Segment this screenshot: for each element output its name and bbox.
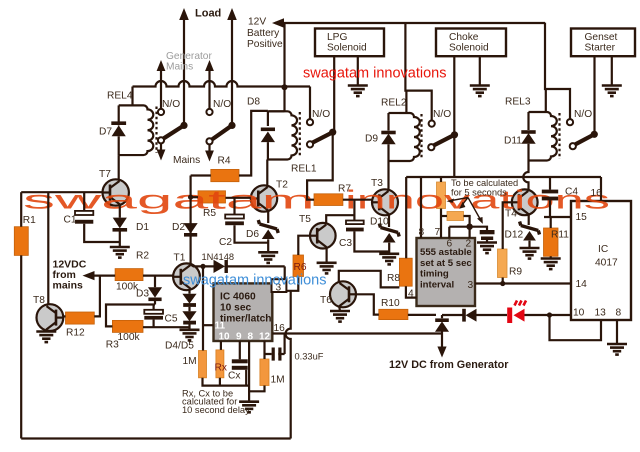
wire 12VDC from mains arrow (90, 275, 115, 277)
ground under D4/D5 (180, 330, 200, 341)
wire generator arrow line 2 (208, 68, 210, 109)
wire Rt top lead (440, 177, 442, 182)
resistor R12 (66, 312, 95, 324)
transistor T2 (251, 185, 277, 211)
wire pin2 node to timing cap (470, 227, 487, 230)
diode 1N4148 (214, 260, 226, 273)
svg-text:D6: D6 (246, 229, 259, 240)
wire R6 bottom to pin3 node (286, 277, 298, 291)
relay coil REL2 dotted line (420, 114, 422, 160)
wire T7 base (21, 191, 102, 193)
ground under timing cap (477, 243, 497, 254)
wire Choke right lead to ground (479, 56, 481, 85)
arrow load 1 head (179, 8, 189, 20)
wire T7 emitter to D1 (119, 205, 121, 218)
relay coil REL4 (119, 105, 154, 155)
wire R3 right to D4/D5 node (143, 326, 190, 328)
wire T4 emitter to D12 (528, 214, 530, 225)
diode blocking (points left) (462, 309, 466, 322)
svg-text:IC: IC (598, 244, 608, 255)
diode D8 (261, 132, 275, 143)
wire REL3 coil top drop (545, 89, 547, 112)
capacitor C3 (346, 221, 364, 225)
svg-text:R4: R4 (218, 156, 231, 167)
svg-text:10: 10 (219, 332, 231, 343)
svg-text:R3: R3 (106, 340, 119, 351)
ground under 4017 pin8 (607, 344, 627, 355)
wire REL2 coil top to D9 (389, 112, 400, 114)
svg-text:N/O: N/O (433, 109, 451, 120)
wire C5 top lead (153, 305, 155, 310)
wire generator diode column (441, 315, 443, 350)
wire T5 emitter (326, 247, 328, 262)
wire bus left end down to REL4 coil (131, 87, 133, 106)
svg-text:12: 12 (259, 332, 271, 343)
wire pin 11 stub (203, 324, 214, 326)
svg-text:D3: D3 (136, 289, 149, 300)
svg-text:Cx: Cx (228, 371, 240, 382)
wire generator arrow line 1 (160, 68, 162, 109)
svg-text:15: 15 (576, 212, 588, 223)
wire REL1 coil top feed (268, 110, 285, 112)
svg-text:R8: R8 (387, 273, 400, 284)
svg-text:C2: C2 (219, 237, 232, 248)
relay coil REL3 (529, 112, 557, 160)
wire 1M right bottom to ground column (249, 386, 264, 392)
resistor R5 (198, 191, 226, 203)
svg-text:1M: 1M (271, 375, 285, 386)
svg-text:R10: R10 (381, 298, 400, 309)
svg-text:1M: 1M (183, 356, 197, 367)
svg-text:C3: C3 (339, 238, 352, 249)
arrow load 2 head (227, 8, 237, 20)
IC 4060 pin 3 tab (272, 279, 287, 292)
IC 4060 body (214, 283, 273, 341)
resistor R7 (314, 194, 343, 206)
arrow mains down 1 (160, 144, 162, 154)
svg-text:C1: C1 (64, 215, 77, 226)
wire C3 bottom lead to D10 ground node (354, 231, 389, 251)
wire R4 left lead (191, 174, 211, 176)
wire 4017 pin8 to ground (616, 320, 618, 344)
wire C2 top lead (233, 198, 235, 215)
wire T8 emitter (45, 330, 47, 332)
svg-text:4017: 4017 (595, 258, 618, 269)
wire rail down to R8 top (405, 177, 407, 258)
diode generator (435, 321, 449, 331)
resistor R1 (14, 227, 28, 256)
svg-text:R11: R11 (551, 230, 569, 241)
svg-text:R12: R12 (66, 328, 85, 339)
svg-text:LPG: LPG (327, 32, 347, 43)
svg-text:timing: timing (420, 269, 449, 280)
svg-text:N/O: N/O (162, 99, 180, 110)
svg-text:REL4: REL4 (107, 91, 133, 102)
svg-text:N/O: N/O (312, 109, 330, 120)
svg-text:R9: R9 (509, 267, 522, 278)
ground under D6 (258, 252, 278, 263)
wire 4060 pin12 column with 0.33uF tap (263, 341, 265, 359)
ground under 4060 pin8 (239, 402, 259, 413)
svg-text:T2: T2 (276, 180, 288, 191)
resistor R9 (498, 249, 508, 278)
diode D4 (182, 294, 196, 304)
ground under LPG solenoid (348, 86, 368, 97)
svg-text:Generator: Generator (166, 51, 212, 62)
node battery feed junction (282, 84, 288, 90)
transistor T5 (310, 223, 336, 249)
svg-text:11: 11 (215, 321, 226, 332)
ground under D12 (520, 248, 540, 259)
wire C1 top lead (83, 192, 85, 211)
svg-text:Positive: Positive (247, 39, 283, 50)
wire T5 collector up and right to C3 lead (326, 215, 354, 223)
wire T5 base to R6 (298, 236, 310, 255)
wire battery bus y=22.6 (275, 22, 545, 24)
diode D11 (527, 112, 529, 130)
wire 1N4148 cathode down to 4060 pin3 tab (284, 266, 286, 279)
box Genset Starter (571, 29, 635, 57)
svg-text:T1: T1 (174, 253, 186, 264)
wire D11 bottom along coil left edge down with hop to T4 (523, 144, 528, 191)
svg-text:for 5 seconds: for 5 seconds (451, 188, 507, 198)
transistor T3 (372, 189, 398, 215)
resistor R10 (379, 309, 408, 319)
transistor T8 mirrored (37, 304, 64, 331)
node pin13 junction (547, 312, 552, 317)
svg-text:7: 7 (435, 227, 441, 238)
IC 555 body (417, 238, 476, 306)
diode D2 (184, 223, 198, 233)
svg-text:10 sec: 10 sec (220, 303, 251, 314)
svg-text:10: 10 (573, 308, 585, 319)
wire R2 right to T1 base (143, 275, 173, 277)
wire R4 right lead up to D8 node (239, 111, 268, 176)
node R9 pin3 junction (500, 281, 505, 286)
switch REL3 contacts (567, 119, 573, 125)
node pin11 column top junction (200, 264, 205, 269)
node pin2 junction (466, 224, 472, 230)
svg-text:D9: D9 (365, 134, 378, 145)
wire R10 right to generator diode node (408, 314, 436, 316)
svg-text:D4/D5: D4/D5 (165, 341, 194, 352)
wire 4060 pin10 to Rx (220, 341, 222, 350)
box LPG Solenoid (315, 29, 384, 57)
svg-text:T5: T5 (299, 214, 311, 225)
wire rail y=177 (406, 176, 601, 178)
svg-text:8: 8 (419, 227, 425, 238)
wire load arrow line 2 (231, 17, 233, 125)
wire 555 pin3 to 4017 pin14 (475, 282, 571, 284)
svg-text:Battery: Battery (247, 28, 280, 39)
ground under D10 (379, 254, 399, 265)
wire Rt bottom to pin7 (440, 209, 442, 239)
wire C4 top lead from rail (549, 177, 551, 190)
wire T6 base to R10 (356, 294, 379, 314)
resistor 1M right (260, 359, 269, 386)
svg-text:R2: R2 (136, 251, 149, 262)
wire C1 bottom lead (84, 224, 120, 242)
svg-text:T6: T6 (320, 295, 332, 306)
wire REL3 feed from battery bus (545, 23, 570, 120)
diode D7 (118, 105, 120, 125)
diode D9 (387, 113, 389, 131)
arrows to be calculated (450, 198, 482, 222)
wire pin6 tie (449, 227, 469, 238)
wire T2 emitter to D6 (267, 211, 269, 224)
capacitor timing 555 (480, 230, 495, 234)
wire rail corner down to 4017 pin16 (600, 177, 602, 201)
relay coil REL4 dotted line (155, 107, 157, 154)
zener D6 (262, 230, 275, 240)
ground under T6 (330, 311, 350, 322)
wire T8 collector column (47, 192, 49, 304)
wire REL1 coil bottom D8 node (268, 142, 269, 159)
svg-text:Rx: Rx (215, 363, 227, 374)
capacitor Cx (232, 359, 248, 363)
wire rail up to pin3 node with hop (286, 292, 291, 439)
wire R8 bottom pin4 node (406, 286, 417, 297)
IC 4017 body (571, 201, 631, 320)
diode D1 (113, 218, 127, 229)
wire C2 bottom lead (235, 225, 269, 243)
svg-text:C4: C4 (565, 187, 578, 198)
transistor T6 mirrored (330, 281, 356, 307)
resistor R4 (211, 169, 239, 181)
arrow generator 1 head (157, 60, 166, 71)
wire R1 top lead (20, 192, 22, 227)
wire REL4 coil bottom to T7 collector (118, 155, 120, 180)
wire C5 bottom lead (153, 320, 155, 328)
wire R9 bottom to pin3 wire (502, 278, 504, 284)
wire REL2 coil top drop (405, 91, 407, 113)
svg-text:Mains: Mains (173, 155, 200, 166)
wire Rt2 left lead (441, 215, 447, 217)
resistor R11 (544, 228, 559, 256)
wire 0.33uF right lead up to pin16 wire (284, 334, 286, 355)
resistor R8 (399, 258, 412, 286)
svg-text:N/O: N/O (574, 109, 592, 120)
arrow generator 2 head (205, 60, 214, 71)
wire Rt2 right lead to pin2 node (464, 216, 470, 238)
switch SW2 contacts (206, 109, 212, 115)
wire Genset left lead to REL3 common (593, 56, 595, 134)
LED red (507, 308, 512, 324)
svg-text:swagatam innovations: swagatam innovations (303, 66, 446, 82)
svg-text:Genset: Genset (585, 32, 618, 43)
wire 4060 pin16 to generator node with hop (272, 332, 442, 334)
svg-text:3: 3 (468, 280, 474, 291)
wire REL1 N/O top terminal from bus (309, 87, 311, 119)
wire C4 bottom to R11 top and pin15 (544, 200, 571, 228)
wire bottom rail (21, 437, 291, 439)
wire D2 R4 R5 column (190, 176, 192, 265)
svg-text:R5: R5 (203, 208, 216, 219)
wire R11 bottom to ground (550, 256, 552, 258)
svg-text:R7: R7 (338, 184, 351, 195)
relay coil REL2 (400, 113, 420, 161)
resistor Rt2 timing horizontal (447, 212, 464, 221)
wire D3 bottom node left and down to R3 (106, 305, 155, 327)
wire 4017 pin13 loop (550, 315, 602, 340)
svg-text:set at 5 sec: set at 5 sec (420, 258, 472, 269)
transistor T4 (512, 189, 538, 215)
svg-text:T3: T3 (371, 178, 383, 189)
capacitor C2 (225, 215, 244, 219)
arrow 12V battery positive head (points left) (272, 18, 284, 28)
svg-text:R1: R1 (23, 215, 36, 226)
svg-text:N/O: N/O (213, 99, 231, 110)
svg-text:0.33uF: 0.33uF (295, 352, 324, 362)
svg-text:REL2: REL2 (381, 98, 407, 109)
wire LPG left lead to REL1 common (333, 56, 335, 132)
svg-text:swagatam innovations: swagatam innovations (183, 273, 326, 289)
resistor 1M left (199, 351, 207, 378)
wire R1 bottom to rail (20, 255, 22, 438)
ground under T8 (36, 332, 56, 343)
resistor R3 100k (112, 320, 143, 332)
wire T1 collector node to 1N4148 (191, 265, 214, 267)
resistor Rt timing (to be calculated) (437, 182, 446, 209)
wire Choke left lead through REL2 common to rail (453, 56, 455, 177)
svg-text:100k: 100k (118, 332, 141, 343)
capacitor C1 (75, 211, 93, 215)
svg-text:1N4148: 1N4148 (202, 252, 235, 262)
wire Genset right lead to ground (611, 56, 613, 85)
resistor R2 100k (115, 269, 143, 281)
wire 555 pin8 from rail (420, 177, 422, 238)
zener D10 (383, 233, 396, 243)
svg-text:Choke: Choke (449, 32, 479, 43)
svg-text:IC 4060: IC 4060 (220, 292, 256, 303)
wire R7 right to T3 base with C3 tap (343, 199, 372, 201)
switch SW1 contacts (158, 109, 164, 115)
wire main bus y=86.5 with hops (133, 81, 311, 87)
svg-text:4: 4 (408, 289, 414, 300)
wire REL2 feed from battery bus (405, 23, 431, 121)
wire 4060 pin8 ground column (248, 341, 250, 402)
ground under Genset starter (602, 86, 622, 97)
relay coil REL1 (269, 111, 297, 159)
wire R12 feed column (94, 276, 100, 317)
arrow 12V DC from generator (437, 347, 446, 358)
svg-text:REL3: REL3 (505, 97, 531, 108)
transistor T1 (173, 263, 200, 290)
resistor R6 (293, 255, 304, 277)
svg-text:interval: interval (420, 279, 454, 290)
wire T3 emitter to D10 (388, 214, 390, 227)
svg-text:C5: C5 (165, 314, 178, 325)
wire T6 emitter (338, 306, 341, 311)
svg-text:To be calculated: To be calculated (451, 178, 518, 188)
svg-text:9: 9 (236, 332, 242, 343)
svg-text:Starter: Starter (585, 43, 616, 54)
svg-text:T7: T7 (99, 169, 111, 180)
svg-text:12V: 12V (248, 17, 266, 28)
zener D12 (523, 231, 536, 241)
svg-text:D2: D2 (172, 222, 185, 233)
svg-text:Load: Load (195, 8, 221, 20)
svg-text:D8: D8 (247, 97, 260, 108)
wire R5 right to T2 base (226, 197, 251, 199)
wire pin11 column (202, 266, 204, 350)
box Choke Solenoid (436, 29, 506, 57)
wire T6 collector to R8 bottom node (339, 271, 400, 288)
wire battery feed drop x=284.5 (283, 23, 285, 112)
svg-text:8: 8 (616, 308, 622, 319)
ground under D1 (110, 247, 130, 258)
wire LPG right lead to ground (357, 56, 359, 85)
svg-text:14: 14 (576, 279, 588, 290)
svg-text:mains: mains (53, 280, 84, 292)
svg-text:R6: R6 (294, 262, 307, 273)
switch REL2 contacts (429, 121, 435, 127)
diode D3 (148, 287, 162, 297)
wire T8 base lead (63, 315, 65, 317)
transistor T7 (103, 179, 129, 205)
capacitor 0.33uF (265, 353, 285, 355)
capacitor C4 (542, 190, 558, 194)
wire T2 collector to REL1 coil bottom (266, 160, 268, 188)
switch REL1 contacts (307, 119, 313, 125)
svg-text:Solenoid: Solenoid (449, 43, 489, 54)
svg-text:D10: D10 (370, 217, 389, 228)
ground under R11 (541, 259, 561, 270)
svg-text:D11: D11 (504, 136, 522, 147)
svg-text:REL1: REL1 (291, 164, 317, 175)
wire T1 emitter to D4 (188, 290, 190, 294)
wire 4060 pin9 to Cx (239, 341, 241, 359)
svg-text:T4: T4 (505, 209, 517, 220)
node R5 D2 junction (188, 195, 193, 200)
svg-text:Mains: Mains (166, 62, 193, 73)
svg-text:16: 16 (591, 188, 603, 199)
wire C3 top lead (353, 200, 355, 221)
svg-text:2: 2 (466, 239, 472, 250)
wire D3 top lead (154, 276, 156, 288)
svg-text:16: 16 (274, 323, 286, 334)
wire REL1 common down to R7 (307, 132, 333, 200)
ground under Choke solenoid (470, 86, 490, 97)
svg-text:13: 13 (595, 308, 607, 319)
svg-text:Solenoid: Solenoid (327, 43, 367, 54)
wire 1M left and Rx bottoms (203, 378, 250, 386)
relay coil REL3 dotted line (558, 113, 560, 159)
svg-text:swagatam: swagatam (23, 186, 315, 215)
ground under T5 (317, 263, 337, 274)
svg-text:timer/latch: timer/latch (220, 314, 272, 325)
wire R5 left lead (191, 196, 198, 198)
relay coil REL1 dotted line (299, 112, 301, 158)
diode D5 (182, 311, 196, 321)
svg-text:10 second delay: 10 second delay (182, 405, 250, 415)
svg-text:D1: D1 (136, 222, 149, 233)
wire D9 bottom to coil bottom and T3 collector (389, 144, 400, 190)
svg-text:D7: D7 (99, 127, 112, 138)
wire LED row y=315 (442, 314, 571, 316)
svg-text:12V DC from Generator: 12V DC from Generator (389, 359, 509, 371)
svg-text:D12: D12 (505, 230, 524, 241)
resistor Rx (216, 350, 224, 378)
svg-text:6: 6 (447, 239, 453, 250)
wire T4 base to R9 (503, 202, 512, 249)
svg-text:8: 8 (248, 332, 254, 343)
arrow mains down 2 (208, 145, 210, 155)
capacitor C5 (144, 310, 163, 314)
wire load arrow line 1 (183, 17, 185, 125)
svg-text:T8: T8 (33, 295, 45, 306)
